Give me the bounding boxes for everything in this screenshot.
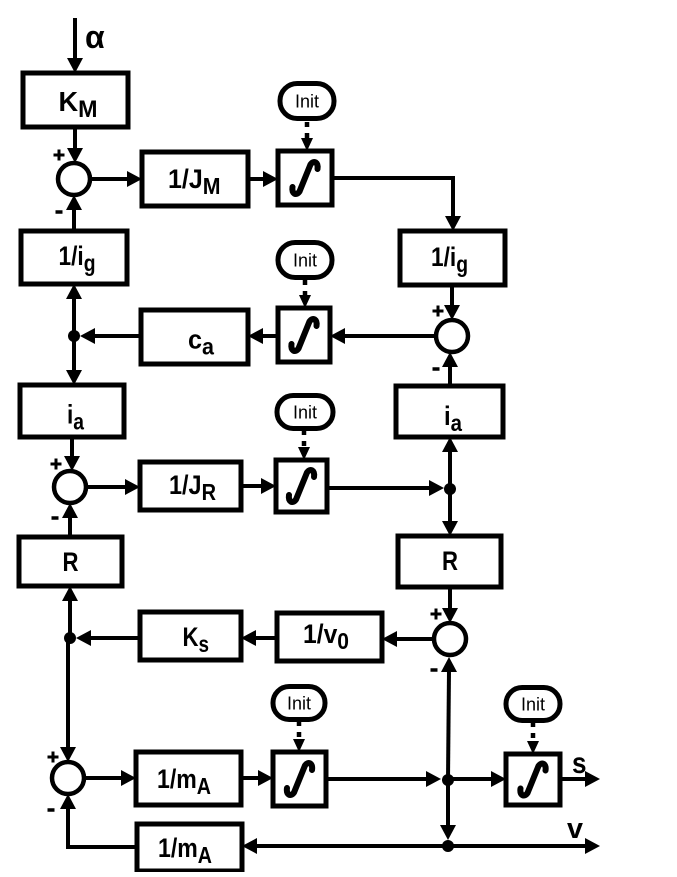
svg-text:v: v (567, 813, 583, 845)
wire I5 to s output (560, 771, 600, 787)
wire I3 to node J3 (327, 480, 444, 496)
init oval O3 (277, 396, 333, 429)
svg-text:s: s (572, 747, 587, 780)
init arrow to I2 (299, 280, 311, 308)
wire I4 to node J4 (326, 771, 441, 787)
wire I1 to right 1/ig (332, 178, 461, 231)
wire J1 up to 1/ig left (66, 284, 82, 336)
summing junction S2 (54, 471, 86, 503)
integrator I5 (506, 754, 560, 805)
minus sign S1 bottom (56, 210, 63, 214)
minus sign S2 bottom (52, 516, 59, 520)
wire 1/mA-lower to S5 minus (60, 794, 137, 847)
integrator I2 (278, 308, 330, 362)
wire KM to S1 (67, 127, 83, 163)
wire ia-left to S2 (64, 437, 80, 471)
wire 1/ig-left to S1 minus (66, 195, 82, 231)
svg-text:Init: Init (293, 403, 317, 423)
wire J3 up to ia right (442, 437, 458, 489)
integrator I1 (278, 151, 332, 205)
node J1 (68, 330, 80, 342)
wire ia-right to S3 minus (442, 352, 458, 386)
init arrow to I4 (293, 721, 305, 752)
integrator I3 (276, 460, 327, 512)
plus sign S4 top (431, 609, 442, 620)
integrator I4 (273, 752, 326, 806)
wire R-right to S4 (442, 587, 458, 623)
wire I2 to ca (248, 328, 278, 344)
block 1/v0 (277, 613, 382, 661)
wire J2 down to S5 (60, 640, 76, 762)
wire S1 to 1/JM (90, 171, 142, 187)
block 1/ig right (400, 231, 505, 285)
wire 1/mA to I4 (241, 770, 273, 786)
wire J4 down to node J5 (440, 780, 456, 840)
wire J3 down to R right (442, 489, 458, 536)
wire J4 up to S4 minus (441, 657, 457, 780)
node J3 (444, 483, 456, 495)
svg-text:Init: Init (293, 251, 317, 271)
summing junction S1 (58, 163, 90, 195)
block Ks (140, 612, 241, 660)
plus sign S5 top (48, 752, 59, 763)
wire 1/JR to I3 (241, 478, 276, 494)
node J4 (442, 774, 454, 786)
plus sign S3 top (433, 306, 444, 317)
block 1/ig left (21, 231, 127, 284)
block R right (398, 536, 501, 587)
input arrow alpha (67, 18, 83, 73)
wire S3 to I2 (330, 328, 436, 344)
init oval O4 (273, 687, 325, 720)
block ca (141, 310, 248, 364)
svg-text:R: R (442, 546, 458, 576)
minus sign S3 bottom (433, 367, 440, 371)
block 1/JR (140, 462, 241, 510)
svg-text:Init: Init (521, 695, 545, 715)
wire S4 to 1/v0 (382, 631, 434, 647)
init oval O2 (278, 243, 332, 278)
summing junction S3 (436, 320, 468, 352)
wire J2 up to R left (62, 586, 78, 638)
wire Ks to node J2 (76, 630, 140, 646)
minus sign S4 bottom (431, 668, 438, 672)
wire S5 to 1/mA (84, 770, 136, 786)
svg-text:Init: Init (287, 694, 311, 714)
block 1/mA lower (137, 824, 242, 871)
block 1/JM (142, 152, 248, 206)
wire J5 to v output (448, 838, 600, 854)
label v (567, 813, 583, 845)
block KM (23, 73, 128, 127)
wire J1 down to ia left (66, 336, 82, 385)
wire ca to node J1 (80, 328, 141, 344)
wire J4 to I5 (448, 771, 506, 787)
block 1/mA upper (136, 752, 241, 805)
node J2 (64, 632, 76, 644)
init oval O1 (280, 84, 334, 119)
svg-text:α: α (85, 19, 105, 55)
summing junction S5 (52, 762, 84, 794)
init arrow to I3 (298, 430, 310, 460)
minus sign S5 bottom (48, 808, 55, 812)
wire 1/JM to I1 (248, 171, 278, 187)
summing junction S4 (434, 623, 466, 655)
wire 1/v0 to Ks (241, 630, 277, 646)
block ia right (396, 386, 503, 437)
label s (572, 747, 587, 780)
plus sign S1 top (54, 150, 65, 161)
wire R-left to S2 minus (62, 503, 78, 537)
init arrow to I5 (527, 722, 539, 754)
init oval O5 (506, 688, 560, 721)
label alpha (85, 19, 105, 55)
init arrow to I1 (301, 122, 313, 151)
svg-text:Init: Init (295, 92, 319, 112)
node J5 (442, 840, 454, 852)
wire J5 to 1/mA lower (242, 838, 448, 854)
wire 1/ig-right to S3 (444, 285, 460, 320)
svg-text:R: R (63, 547, 79, 577)
wire S2 to 1/JR (86, 479, 140, 495)
plus sign S2 top (51, 459, 62, 470)
block R left (19, 537, 122, 586)
block ia left (20, 385, 124, 437)
